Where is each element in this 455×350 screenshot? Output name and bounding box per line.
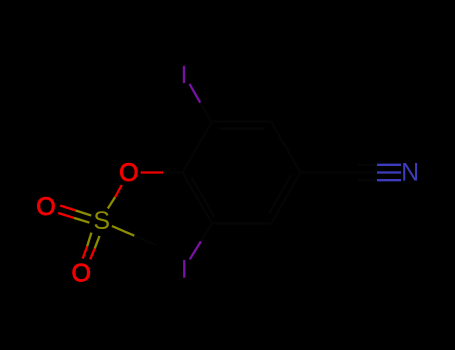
wire ring bond C6-C1 xyxy=(183,173,213,224)
svg-text:S: S xyxy=(93,207,110,235)
wire ring inner double bond C2=C3 xyxy=(219,127,264,129)
svg-text:O: O xyxy=(36,193,55,221)
wire ring bond C4-C5 xyxy=(271,173,301,224)
iodine I1 (top) xyxy=(183,66,185,83)
bond I2(bottom)-C6 purple half xyxy=(190,241,201,259)
wire ring inner double bond C6=C1 xyxy=(192,178,215,217)
bond O1-C1 red half xyxy=(58,173,163,260)
wire black parts of nitrile triple bond near C7 xyxy=(354,171,378,173)
svg-text:N: N xyxy=(401,159,419,187)
S=O3 double bond left line olive half xyxy=(87,233,91,247)
bond S-CH3 olive half xyxy=(112,226,134,236)
wire ring bond C2-C3 xyxy=(212,120,271,122)
S=O3 double bond right line olive half xyxy=(95,236,100,248)
svg-text:O: O xyxy=(119,159,138,187)
S=O2 double bond upper line red half xyxy=(60,206,75,211)
wire ring inner double bond C4=C5 xyxy=(269,175,292,214)
wire black half of bond S-CH3 xyxy=(134,236,156,246)
S=O2 double bond upper line olive half xyxy=(76,211,92,216)
wire bond C4 to nitrile carbon C7 xyxy=(301,171,354,173)
bond O1-S red half xyxy=(115,185,122,197)
S=O2 double bond lower line olive half xyxy=(74,218,90,223)
wire black half of bond I(bottom)-C6 xyxy=(201,224,212,242)
S=O2 double bond lower line red half xyxy=(58,213,74,218)
wire ring bond C5-C6 xyxy=(212,222,271,224)
wire black half of bond I(top)-C2 xyxy=(200,103,211,122)
bond I1(top)-C2 purple half xyxy=(190,84,201,259)
wire ring bond C1-C2 xyxy=(183,122,213,173)
wire black half of bond O-C1 xyxy=(163,171,183,173)
iodine I2 (bottom) xyxy=(183,260,185,278)
svg-text:O: O xyxy=(71,259,90,287)
wire ring bond C3-C4 xyxy=(271,122,301,173)
nitrile C7#N triple bond blue halves xyxy=(377,165,401,180)
bond O1-S olive half xyxy=(74,197,134,248)
S=O3 double bond left line red half xyxy=(83,246,88,258)
benzene ring (black bonds, near-invisible) xyxy=(134,103,377,246)
S=O3 double bond right line red half xyxy=(90,248,95,259)
